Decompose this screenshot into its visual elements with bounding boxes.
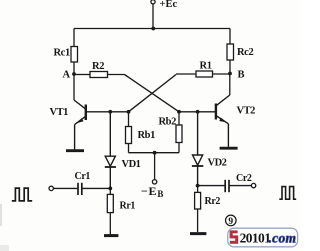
svg-text:.com: .com <box>269 230 297 245</box>
diode VD1 <box>105 112 116 189</box>
svg-text:20101: 20101 <box>240 231 272 246</box>
terminal input <box>49 186 53 190</box>
scan artifact left edge streak <box>0 204 2 226</box>
wire Rb1 to Rb2 bottom <box>129 152 180 154</box>
svg-text:Rb1: Rb1 <box>138 130 156 141</box>
junction dot VD1 Rr1 Cr1 <box>108 187 112 191</box>
resistor Rb1 <box>126 112 132 153</box>
svg-text:Rc1: Rc1 <box>54 48 70 59</box>
terminal -EB <box>152 180 156 184</box>
wire top rail <box>74 28 230 30</box>
ground Rr2 <box>190 232 206 235</box>
ground Rr1 <box>104 234 118 237</box>
svg-text:VD1: VD1 <box>122 159 141 170</box>
stylized 5 <box>230 230 239 243</box>
junction dot top rail <box>151 27 155 31</box>
junction dot VT1 base node <box>127 110 131 114</box>
junction dot VD2 Rr2 Cr2 <box>196 184 200 188</box>
output square wave symbol <box>279 187 296 200</box>
resistor Rr2 <box>195 186 201 232</box>
svg-text:Rc2: Rc2 <box>237 47 253 58</box>
power terminal +Ec <box>151 0 155 28</box>
resistor Rb2 <box>176 112 182 153</box>
resistor R2 <box>74 72 125 78</box>
wire cross-coupling B to VT1 base <box>129 75 177 112</box>
scan artifact bottom left smudge <box>0 245 9 251</box>
svg-text:R1: R1 <box>200 61 212 72</box>
wire to -EB terminal <box>154 153 156 180</box>
svg-text:Cr2: Cr2 <box>236 173 252 184</box>
terminal output <box>251 183 255 187</box>
svg-text:Rr1: Rr1 <box>120 201 136 212</box>
node A <box>72 72 76 76</box>
junction dot VD1 tap <box>108 110 112 114</box>
capacitor Cr1 <box>53 183 110 195</box>
svg-text:VD2: VD2 <box>208 158 227 169</box>
svg-text:B: B <box>238 70 245 81</box>
figure number 9 circled <box>226 215 237 227</box>
wire VT2 base <box>179 111 215 113</box>
junction dot VT2 base node <box>177 110 181 114</box>
resistor Rc2 <box>227 29 234 74</box>
transistor VT2 <box>216 95 230 124</box>
capacitor Cr2 <box>198 180 252 192</box>
resistor Rr1 <box>107 188 113 234</box>
junction dot VD2 tap <box>196 110 200 114</box>
ground VT2 emitter <box>220 147 238 150</box>
watermark box 520101.com <box>228 228 298 247</box>
svg-text:+Ec: +Ec <box>160 0 178 10</box>
wire VT1 base <box>87 111 129 113</box>
svg-text:VT1: VT1 <box>50 107 69 118</box>
transistor VT1 <box>74 100 86 125</box>
resistor R1 <box>176 71 230 77</box>
input square wave symbol <box>12 188 32 201</box>
svg-text:Rb2: Rb2 <box>159 117 177 128</box>
wire VT2 emitter <box>227 124 229 147</box>
wire A to VT1 collector <box>73 74 75 100</box>
junction dot EB tap <box>153 151 157 155</box>
svg-text:Cr1: Cr1 <box>75 171 91 182</box>
diode VD2 <box>192 112 203 186</box>
ground VT1 emitter <box>66 149 84 152</box>
svg-text:Rr2: Rr2 <box>205 196 221 207</box>
wire cross-coupling A to VT2 base <box>125 75 180 112</box>
resistor Rc1 <box>71 29 78 75</box>
svg-text:R2: R2 <box>92 61 104 72</box>
svg-text:9: 9 <box>228 217 233 227</box>
svg-text:VT2: VT2 <box>237 106 256 117</box>
node B <box>228 72 232 76</box>
wire B to VT2 collector <box>229 74 231 96</box>
wire VT1 emitter <box>74 125 76 150</box>
svg-text:A: A <box>63 70 71 81</box>
